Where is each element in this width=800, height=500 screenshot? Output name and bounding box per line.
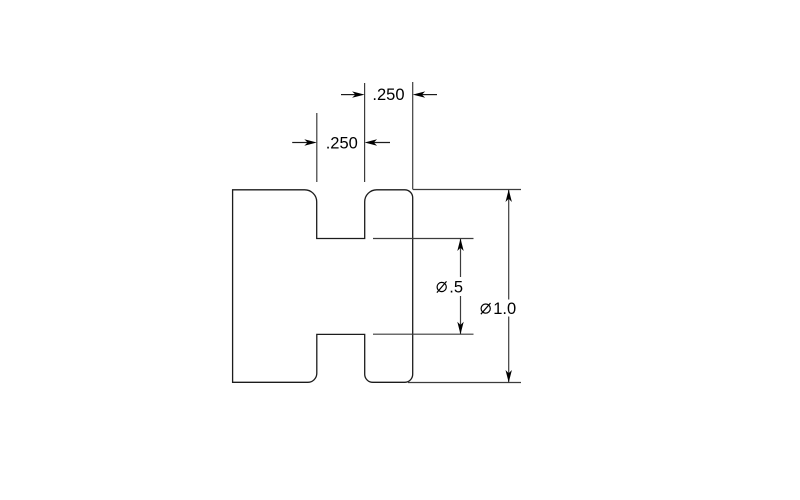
svg-text:.250: .250 [372, 86, 404, 104]
top .250 left arrowhead [352, 91, 365, 97]
top .250 right arrowhead [413, 91, 426, 97]
extension line at groove right wall x=364.6 [364, 83, 366, 182]
dia .5 top extension line [373, 238, 474, 240]
top .250 dimension right leader [421, 94, 437, 96]
top .250 dimension left leader [341, 94, 356, 96]
dia .5 bottom extension line [373, 333, 474, 335]
dia 1.0 bottom extension line [408, 382, 521, 384]
svg-text:.5: .5 [449, 279, 463, 297]
dia 1.0 diameter symbol [481, 303, 491, 314]
dia .5 dimension line upper segment [460, 239, 462, 278]
lower .250 dimension right leader [373, 142, 390, 144]
svg-text:1.0: 1.0 [493, 300, 516, 318]
dia 1.0 top extension line [413, 189, 521, 191]
dia 1.0 up arrowhead [506, 190, 512, 203]
dia .5 dimension line lower segment [460, 296, 462, 334]
dia 1.0 dimension line lower segment [508, 317, 510, 383]
lower .250 dimension left leader [292, 142, 308, 144]
svg-text:.250: .250 [326, 134, 358, 152]
dia .5 diameter symbol [437, 281, 447, 292]
dia .5 up arrowhead [457, 239, 463, 252]
dia 1.0 dimension line upper segment [508, 190, 510, 300]
dia .5 down arrowhead [457, 322, 463, 335]
part outline (spool cross-section) [233, 190, 413, 382]
lower .250 left arrowhead [304, 139, 317, 145]
lower .250 right arrowhead [365, 139, 378, 145]
extension line at groove left wall x=316.8 [316, 113, 318, 182]
dia 1.0 down arrowhead [506, 370, 512, 383]
extension line at part right edge x=412.7 [412, 82, 414, 190]
